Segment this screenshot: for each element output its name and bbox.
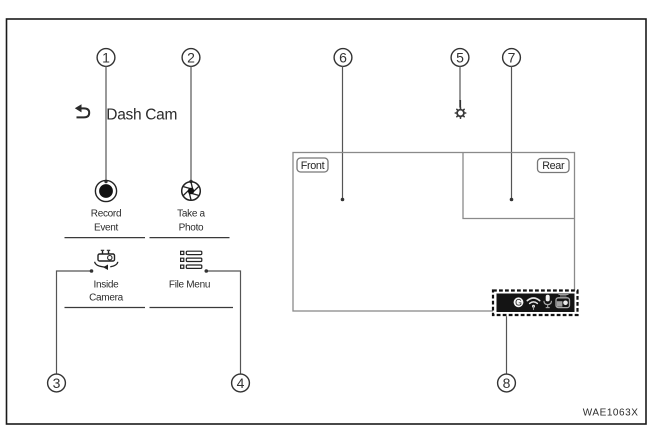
status bar black background: [497, 294, 575, 313]
svg-text:6: 6: [339, 50, 347, 66]
Rear label: [538, 159, 570, 173]
svg-text:Event: Event: [94, 223, 119, 234]
svg-text:Camera: Camera: [89, 293, 124, 304]
svg-text:1: 1: [102, 50, 110, 66]
svg-text:G: G: [515, 298, 522, 308]
divider row 2: [65, 307, 234, 309]
svg-text:Take a: Take a: [177, 209, 205, 220]
inside camera icon: [95, 250, 118, 267]
screen rectangle: [293, 153, 575, 312]
divider row 1: [65, 237, 230, 239]
camera record icon: [556, 294, 570, 307]
circled number 7: [503, 49, 521, 67]
leader line from 5 to gear: [459, 66, 461, 101]
leader line from 1 to record icon: [104, 66, 107, 183]
svg-text:Front: Front: [301, 160, 325, 172]
circled number 3: [48, 374, 66, 392]
circled number 2: [182, 49, 200, 67]
svg-text:8: 8: [503, 375, 511, 391]
svg-text:2: 2: [187, 50, 195, 66]
svg-text:Dash Cam: Dash Cam: [106, 107, 177, 124]
record event icon: [95, 180, 116, 201]
circled number 1: [97, 49, 115, 67]
back arrow icon: [77, 108, 90, 117]
leader line from 6: [341, 66, 345, 201]
leader line from 2 to photo icon: [189, 66, 192, 183]
svg-text:Rear: Rear: [542, 160, 565, 172]
wifi icon: [527, 298, 539, 310]
svg-text:Inside: Inside: [94, 280, 120, 291]
settings gear icon: [455, 108, 465, 118]
svg-text:Record: Record: [91, 209, 121, 220]
leader line from 7: [510, 66, 514, 201]
svg-text:7: 7: [508, 50, 516, 66]
GPS icon: [514, 297, 524, 307]
circled number 4: [232, 374, 250, 392]
circled number 6: [334, 49, 352, 67]
Front label: [297, 158, 328, 172]
circled number 8: [498, 374, 516, 392]
svg-text:3: 3: [53, 375, 61, 391]
circled number 5: [451, 49, 469, 67]
svg-text:5: 5: [456, 50, 464, 66]
svg-text:4: 4: [237, 375, 245, 391]
file menu icon: [181, 251, 202, 268]
rear inner rectangle: [463, 153, 575, 219]
svg-text:Photo: Photo: [179, 223, 204, 234]
take a photo icon (aperture): [182, 182, 201, 201]
svg-text:WAE1063X: WAE1063X: [583, 408, 639, 419]
status bar dashed box: [493, 291, 578, 316]
microphone icon: [544, 295, 552, 308]
leader line from 8: [506, 316, 508, 374]
svg-text:File Menu: File Menu: [169, 280, 210, 291]
leader line from 3 to inside camera: [57, 269, 94, 374]
leader line from 4 to file menu: [205, 269, 241, 374]
